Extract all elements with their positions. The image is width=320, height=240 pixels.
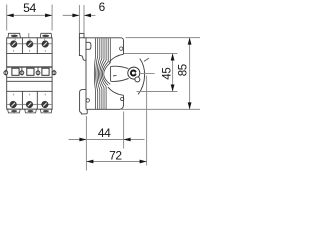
dim 44 arrow right [124, 138, 131, 142]
side body left edge [85, 38, 87, 110]
top tab pole3 [40, 33, 52, 38]
toggle lever crescent [138, 59, 144, 95]
dim 85 arrow bottom [188, 102, 192, 109]
dim 6 extension right [83, 5, 85, 33]
top middle tick [28, 33, 30, 37]
bottom screw pole2 [26, 101, 33, 108]
dim 44 arrow left [79, 138, 86, 142]
hole c bottom [121, 97, 124, 100]
ticks under top screws [14, 39, 46, 52]
hole c top [120, 47, 123, 50]
pole divider left (top cells) [21, 38, 23, 54]
dim 85 line [189, 38, 191, 110]
ticks above bottom screws [14, 94, 46, 96]
recess top lip [109, 54, 124, 62]
recess dash mark [113, 74, 117, 77]
din tab top [79, 33, 84, 37]
pole divider left (bottom cells) [21, 91, 23, 109]
pole divider right (bottom cells) [36, 91, 38, 109]
dim 6 arrow right [84, 14, 91, 18]
dim 6 tail left [63, 14, 80, 16]
toggle alt position dashes [144, 58, 149, 61]
top screw pole3 [42, 41, 49, 48]
label window bottom line [7, 90, 52, 92]
toggle knob [128, 67, 140, 79]
dim 6 arrow left [72, 14, 79, 18]
bottom screw pole3 [42, 101, 49, 108]
side body top edge + right rounded corner [84, 38, 124, 54]
hole b [86, 99, 89, 102]
housing ribs [94, 38, 110, 109]
bottom tab pole3 [40, 109, 52, 113]
dim 45 extension bottom [137, 91, 178, 93]
svg-text:45: 45 [162, 67, 174, 79]
clip detail P [86, 42, 91, 49]
bottom tab pole1 [8, 109, 21, 113]
dim 45 line [172, 54, 174, 92]
dim 85 extension bottom [121, 108, 200, 110]
top screw pole1 [10, 41, 17, 48]
dim 44 line [69, 139, 145, 141]
phi stud left edge [4, 71, 56, 75]
dim 45 arrow bottom [171, 85, 175, 92]
dim 45 extension top [124, 53, 178, 55]
svg-text:44: 44 [98, 126, 111, 140]
toggle row top line [7, 66, 52, 68]
dim 44 extension right [123, 112, 125, 149]
dim 72 line [86, 161, 146, 163]
front body outline [7, 38, 52, 109]
svg-text:54: 54 [23, 1, 36, 15]
bottom screw pole1 [10, 101, 17, 108]
recess bottom lip [108, 87, 124, 95]
dim 54 line [7, 14, 52, 16]
dim 54 arrow left [7, 14, 14, 18]
toggle window pole3 [42, 68, 49, 75]
dim 85 arrow top [188, 38, 192, 45]
dim 72 extension right [146, 76, 148, 166]
dim 54 extension right [51, 5, 53, 31]
bottom tab pole2 [25, 109, 37, 113]
din flange top leg [79, 38, 86, 61]
dim 72 arrow right [140, 160, 147, 164]
dim 54 arrow right [45, 14, 52, 18]
toggle arm [111, 66, 129, 68]
knob pivot small circle [135, 77, 140, 82]
top screw pole2 [26, 41, 33, 48]
toggle window pole1 [12, 68, 19, 75]
dim 6 tail right [84, 14, 96, 16]
toggle arm base line [110, 66, 112, 81]
svg-text:85: 85 [177, 64, 189, 76]
toggle window pole2 [27, 68, 34, 75]
bottom terminal clamp lines [7, 103, 51, 105]
top terminal clamp lines [7, 43, 51, 45]
svg-text:6: 6 [99, 0, 106, 14]
dim 85 extension top [126, 37, 201, 39]
side body bottom right corner + bottom edge [86, 95, 124, 109]
dim 54 extension left [6, 5, 8, 31]
toggle row bottom line [7, 76, 52, 78]
sub band line [7, 80, 52, 82]
dim 45 arrow top [171, 54, 175, 61]
knob centerline [140, 73, 154, 75]
dim 44 extension left [85, 116, 87, 171]
top tab pole1 [8, 33, 21, 38]
pole divider right (top cells) [36, 38, 38, 54]
din flange bottom leg [80, 90, 88, 114]
dim 72 arrow left [86, 160, 93, 164]
svg-text:72: 72 [109, 149, 122, 163]
dim 6 extension left [78, 5, 80, 33]
top cells bottom line [7, 53, 52, 55]
